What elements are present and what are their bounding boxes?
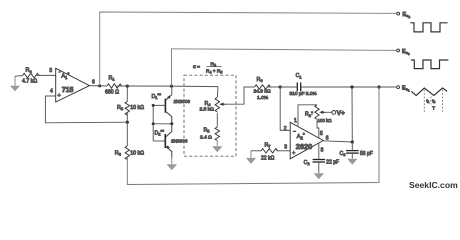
- wire: rail into R4: [216, 87, 219, 98]
- svg-text:5: 5: [320, 131, 323, 137]
- svg-text:R5: R5: [204, 127, 211, 133]
- wire: R3 to bottom rail to E_o1 line: [127, 87, 379, 185]
- resistor R6: [255, 85, 271, 89]
- wire: E_o2 rail: [100, 12, 397, 86]
- svg-text:8: 8: [321, 147, 324, 153]
- dashed box (attenuator): [184, 75, 236, 156]
- svg-text:4.7 kΩ: 4.7 kΩ: [22, 78, 37, 84]
- svg-text:2620: 2620: [296, 142, 312, 151]
- wire: R8 wiper to V+: [326, 111, 332, 113]
- op-amp A1 715: [56, 68, 90, 102]
- svg-text:R4: R4: [205, 101, 212, 107]
- svg-text:10 kΩ: 10 kΩ: [130, 150, 144, 156]
- svg-text:C1: C1: [296, 73, 303, 79]
- ground (below C3): [347, 159, 357, 165]
- waveform icon: square wave (E_o3): [411, 60, 449, 69]
- svg-text:6: 6: [92, 79, 95, 85]
- svg-text:1.0%: 1.0%: [257, 95, 269, 101]
- svg-text:1: 1: [294, 118, 297, 124]
- svg-text:56 pF: 56 pF: [360, 151, 373, 157]
- node: tie right: [170, 122, 173, 125]
- wire: D2 base: [153, 140, 165, 142]
- svg-text:R4 + R5: R4 + R5: [206, 69, 222, 75]
- terminal E_o2: [397, 12, 400, 15]
- svg-text:2: 2: [284, 126, 287, 132]
- waveform icon: triangle wave (E_o1): [411, 88, 447, 112]
- wire: ground to R7: [251, 150, 261, 152]
- svg-text:22 kΩ: 22 kΩ: [261, 155, 274, 161]
- resistor R2: [125, 102, 129, 116]
- svg-text:4: 4: [50, 89, 53, 95]
- wire: R4 to R5: [216, 113, 218, 127]
- node: R2 top: [126, 85, 129, 88]
- wire: summing node down to A2 pin 2: [280, 87, 290, 130]
- svg-text:R3: R3: [115, 150, 122, 156]
- svg-text:T: T: [432, 106, 435, 111]
- resistor R3: [125, 146, 129, 160]
- svg-text:R6: R6: [257, 77, 264, 83]
- wire: C1 to E_o1 rail: [301, 86, 396, 88]
- svg-text:6: 6: [326, 135, 329, 141]
- wire: R4 wiper to R6: [227, 87, 255, 104]
- svg-text:24.9 kΩ: 24.9 kΩ: [254, 88, 271, 94]
- wire: A2 output to C3 node: [323, 141, 352, 142]
- svg-text:C3: C3: [340, 151, 347, 157]
- wire: pin1 up to R8: [298, 105, 317, 126]
- terminal V+: [332, 111, 336, 115]
- wire: ground to Ra: [15, 75, 23, 78]
- wire: R2 to junction: [126, 113, 128, 122]
- node: tie left: [152, 122, 155, 125]
- wire: R1 to clamp node and R4: [117, 85, 218, 88]
- node: summing junction: [279, 85, 282, 88]
- svg-text:22 pF: 22 pF: [326, 160, 339, 166]
- node: feedback junction: [126, 121, 129, 124]
- svg-text:715: 715: [62, 87, 74, 94]
- node: bottom rail to E_o1 line: [377, 85, 380, 88]
- svg-text:10 kΩ: 10 kΩ: [130, 105, 144, 111]
- wire: A1 output to R1: [90, 85, 108, 87]
- svg-text:100 kΩ: 100 kΩ: [318, 118, 333, 123]
- ground (below R7): [246, 151, 256, 164]
- svg-text:R7: R7: [265, 142, 272, 148]
- capacitor C1: [297, 82, 300, 91]
- svg-text:R2: R2: [117, 105, 124, 111]
- svg-text:2.4 Ω: 2.4 Ω: [200, 134, 212, 140]
- resistor Ra: [23, 73, 39, 78]
- waveform icon: square wave (E_o2): [410, 23, 447, 32]
- transistor D2 (2N3906): [165, 124, 172, 158]
- svg-text:2N3906: 2N3906: [171, 138, 188, 143]
- terminal E_o3: [397, 49, 400, 52]
- svg-text:3: 3: [284, 145, 287, 151]
- ground (below D2): [167, 158, 178, 171]
- svg-text:680 Ω: 680 Ω: [105, 89, 119, 95]
- svg-text:R1: R1: [109, 76, 116, 82]
- node: output junction: [351, 140, 354, 143]
- node: E_o1 tap on rail: [350, 85, 353, 88]
- node: clamp/E_o3 junction: [170, 85, 173, 88]
- wire: R6 to summing node: [267, 86, 280, 88]
- ground (at Ra input): [10, 76, 20, 91]
- svg-text:α =: α =: [193, 65, 200, 70]
- svg-text:2N3906: 2N3906: [174, 99, 191, 104]
- svg-text:V+: V+: [337, 110, 345, 117]
- transistor D1 (2N3906): [165, 95, 171, 124]
- wire: E_o3 rail: [172, 49, 397, 86]
- wire: R2 lead from rail: [126, 86, 128, 101]
- svg-text:510 pF 5.0%: 510 pF 5.0%: [290, 91, 318, 97]
- wire: junction to R3: [126, 122, 128, 146]
- node: D1 base: [152, 104, 155, 107]
- capacitor C3: [346, 142, 359, 159]
- wire: Ra to A1 pin3: [36, 74, 56, 76]
- resistor R5: [215, 127, 219, 141]
- svg-text:Ra: Ra: [26, 67, 33, 73]
- wire: pin 8 down to C2: [318, 143, 320, 159]
- ground (below R5): [212, 141, 222, 152]
- formula alpha = R5/(R4+R5): [193, 61, 222, 74]
- svg-text:C2: C2: [304, 160, 311, 166]
- wire: summing node to C1: [280, 86, 296, 88]
- wire: D1 base tie: [153, 105, 165, 141]
- potentiometer R8 (100k offset): [315, 105, 326, 120]
- svg-text:SeekIC.com: SeekIC.com: [409, 180, 458, 190]
- wire: R8 bottom to pin 5: [317, 120, 319, 138]
- resistor R1: [107, 84, 122, 88]
- op-amp A2 2620: [290, 122, 323, 159]
- svg-text:3: 3: [49, 68, 52, 74]
- capacitor C2: [313, 160, 326, 173]
- potentiometer R4: [215, 97, 226, 112]
- resistor R7 (22k): [261, 149, 277, 153]
- ground (below C2): [314, 173, 324, 179]
- wire: A1 pin4 feedback to R2/R3 junction: [45, 96, 127, 123]
- wire: clamp node down to D1: [171, 86, 173, 95]
- node: A1 output junction: [98, 84, 101, 87]
- wire: collector tie bar: [153, 123, 172, 125]
- wire: E_o1 rail down to A2 output: [351, 87, 353, 142]
- terminal E_o1: [397, 86, 400, 89]
- wire: R7 to A2 pin 3: [277, 150, 291, 152]
- svg-text:2.5 kΩ: 2.5 kΩ: [200, 107, 215, 113]
